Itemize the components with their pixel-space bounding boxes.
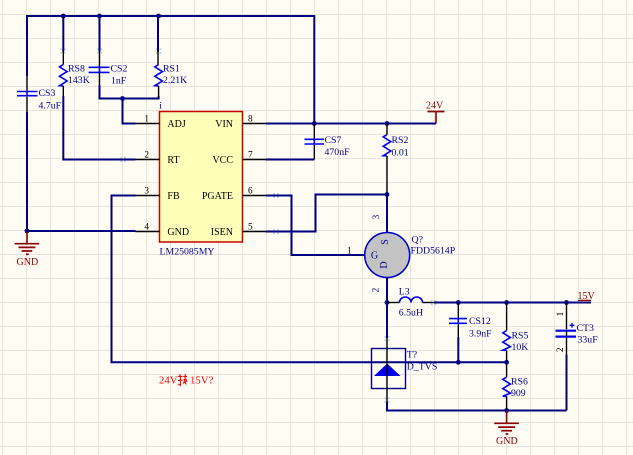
wire SW rail to 15V (434, 302, 591, 304)
svg-text:G: G (371, 250, 378, 261)
resistor RS2 0.01 (383, 124, 409, 195)
junction CS12/FB rail (456, 360, 461, 365)
svg-text:33uF: 33uF (578, 335, 599, 346)
svg-text:D_TVS: D_TVS (407, 362, 437, 373)
capacitor CS7 470nF (305, 124, 351, 160)
wire top rail (27, 15, 314, 17)
svg-text:CS12: CS12 (469, 316, 491, 327)
svg-text:2: 2 (144, 151, 149, 161)
svg-text:7: 7 (248, 151, 253, 161)
svg-text:RS2: RS2 (392, 135, 409, 146)
junction GND rail (504, 408, 509, 413)
svg-text:CS7: CS7 (325, 135, 342, 146)
svg-text:VCC: VCC (212, 155, 233, 166)
capacitor CS12 3.9nF (449, 303, 492, 340)
svg-text:ISEN: ISEN (211, 227, 233, 238)
junction bus to ADJ (120, 96, 125, 101)
svg-text:PGATE: PGATE (202, 191, 233, 202)
junction top rail RS1 (156, 14, 161, 19)
pin 3 FB (136, 187, 180, 203)
svg-text:6.5uH: 6.5uH (399, 308, 423, 319)
svg-text:1: 1 (144, 115, 149, 125)
svg-text:CS3: CS3 (39, 88, 56, 99)
junction VIN/CS7 (312, 121, 317, 126)
svg-text:Q?: Q? (412, 235, 423, 246)
junction top rail RS8 (61, 14, 66, 19)
svg-text:FDD5614P: FDD5614P (411, 246, 456, 257)
junction RS5 top (504, 300, 509, 305)
junction at GND rail (25, 229, 30, 234)
wire VIN rail to 24V (266, 123, 437, 125)
wire left branch down to CS3 (26, 15, 28, 91)
junction top rail CS2 (97, 14, 102, 19)
wire bus to ADJ pin 1 (123, 99, 136, 124)
inductor L3 6.5uH (387, 287, 434, 319)
svg-text:143K: 143K (68, 75, 90, 86)
wire CS12 bottom (457, 337, 459, 362)
svg-text:4.7uF: 4.7uF (39, 101, 62, 112)
power port 24V (426, 101, 445, 124)
svg-text:1: 1 (556, 311, 566, 316)
wire ISEN to sense node (266, 195, 388, 232)
wire CS7 to VCC pin 7 (266, 159, 315, 161)
svg-text:2.21K: 2.21K (163, 75, 187, 86)
wire CT3 bottom (566, 355, 568, 411)
pin 5 ISEN (211, 223, 267, 239)
wire RS8 to RT pin 2 (63, 96, 135, 160)
pin 8 VIN (215, 115, 266, 131)
svg-text:8: 8 (248, 115, 253, 125)
IC U1 LM25085MY (136, 100, 267, 257)
svg-text:CT3: CT3 (577, 323, 595, 334)
note 24V to 15V (159, 374, 214, 387)
svg-text:RS6: RS6 (511, 377, 528, 388)
junction SW node (385, 300, 390, 305)
svg-text:15V?: 15V? (190, 375, 214, 387)
svg-text:4: 4 (144, 223, 149, 233)
svg-text:2: 2 (556, 347, 566, 352)
svg-text:470nF: 470nF (325, 147, 351, 158)
svg-text:D: D (379, 261, 390, 268)
wire source lead (386, 278, 388, 303)
wire GND rail to IC pin 4 (27, 230, 136, 232)
capacitor CS2 1nF (89, 16, 128, 86)
svg-text:RS1: RS1 (163, 64, 180, 75)
svg-text:24V: 24V (159, 375, 178, 387)
resistor RS8 143K (60, 16, 90, 98)
junction CS12 top (456, 300, 461, 305)
power port 15V (578, 291, 596, 302)
svg-text:15V: 15V (578, 291, 596, 302)
svg-text:L3: L3 (399, 287, 410, 298)
svg-text:6: 6 (248, 187, 253, 197)
svg-text:5: 5 (248, 223, 253, 233)
pin 2 RT (136, 151, 180, 167)
svg-text:ADJ: ADJ (167, 119, 185, 130)
svg-text:RS5: RS5 (512, 331, 529, 342)
capacitor CT3 33uF (556, 303, 599, 357)
pin 1 ADJ (136, 115, 186, 131)
svg-text:FB: FB (167, 191, 180, 202)
resistor RS1 2.21K (155, 16, 187, 98)
wire bottom rail (387, 402, 567, 411)
svg-text:i: i (159, 100, 162, 111)
ground GND left (15, 231, 40, 268)
junction RS5/RS6 divider (504, 360, 509, 365)
svg-text:VIN: VIN (215, 119, 233, 130)
svg-text:T?: T? (407, 350, 417, 361)
svg-text:909: 909 (511, 388, 526, 399)
svg-text:3: 3 (372, 214, 382, 219)
wire PGATE to gate (266, 196, 365, 256)
capacitor CS3 (17, 88, 62, 112)
wire CS2/RS1 bottom bus (100, 85, 159, 99)
svg-text:2: 2 (372, 287, 382, 292)
svg-text:RS8: RS8 (68, 64, 85, 75)
svg-text:24V: 24V (426, 101, 444, 112)
svg-text:1: 1 (347, 247, 352, 257)
svg-text:LM25085MY: LM25085MY (160, 247, 215, 258)
wire top rail drop to VIN (313, 15, 315, 124)
svg-text:0.01: 0.01 (392, 148, 409, 159)
svg-text:3.9nF: 3.9nF (469, 329, 492, 340)
diode T? D_TVS (372, 303, 438, 404)
svg-text:RT: RT (167, 155, 179, 166)
svg-text:3: 3 (144, 187, 149, 197)
wire CS3 bottom to GND junction (26, 97, 28, 231)
svg-text:CS2: CS2 (111, 64, 128, 75)
svg-text:1nF: 1nF (111, 75, 127, 86)
junction CT3 top (564, 300, 569, 305)
svg-text:GND: GND (167, 227, 189, 238)
wire FB net (112, 196, 507, 363)
wire drain lead (386, 195, 388, 234)
svg-text:10K: 10K (512, 342, 529, 353)
svg-text:GND: GND (17, 257, 39, 268)
pin 4 GND (136, 223, 190, 239)
resistor RS5 10K (503, 303, 529, 363)
resistor RS6 909 (503, 362, 528, 410)
svg-text:GND: GND (496, 436, 518, 447)
junction ISEN/RS2/drain (385, 192, 390, 197)
pin 7 VCC (212, 151, 266, 167)
junction VIN/RS2 (385, 121, 390, 126)
transistor Q? FDD5614P (347, 214, 456, 292)
wire connection markers (60, 48, 436, 402)
pin 6 PGATE (202, 187, 267, 203)
ground GND bottom (494, 411, 519, 448)
svg-text:S: S (380, 239, 391, 245)
